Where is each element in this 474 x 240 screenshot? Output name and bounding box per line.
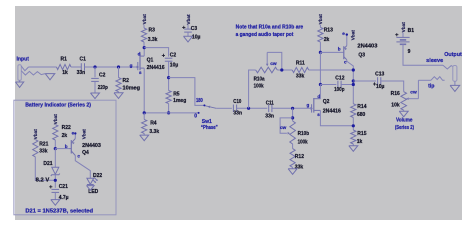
svg-text:R22: R22 [62,125,71,131]
node dot R5 bottom [167,111,170,114]
svg-text:Sw1: Sw1 [202,119,212,125]
svg-text:e: e [72,130,75,135]
wire Vbat to R13 [319,25,321,28]
resistor R12 [290,149,295,168]
ground below R12 [288,169,297,175]
label 33k R11 [296,74,305,80]
svg-text:R10b: R10b [298,131,310,137]
label D22 [93,173,102,179]
svg-text:33n: 33n [233,110,242,116]
label 2N4416 Q2 [323,108,341,114]
transistor Q4 2N4403 [69,139,75,156]
label R3 [149,28,156,34]
wire R5 to source row [168,104,170,113]
resistor R14 [351,104,356,118]
svg-text:4.7µ: 4.7µ [59,195,69,201]
label 2N4416 Q1 [147,65,165,71]
label R16 [391,91,400,97]
svg-text:sleeve: sleeve [426,58,443,64]
svg-text:g: g [307,103,310,108]
wire C2 tap [94,67,96,77]
resistor R5 [166,91,171,104]
node dot at R2 tap [117,65,120,68]
wire R3 to drain node [143,42,145,48]
label D21 [43,161,52,167]
label 2k R13 [324,37,330,43]
svg-text:a ganged audio taper pot: a ganged audio taper pot [236,32,294,38]
label LED [88,189,98,195]
label Input [17,57,30,63]
label sleeve [426,58,443,64]
label 4.7u [59,195,69,201]
svg-text:“Phase”: “Phase” [201,125,218,131]
svg-text:33n: 33n [77,70,86,76]
label 33n C11 [265,114,274,120]
label R1 [61,57,68,63]
svg-text:Battery Indicator (Series 2): Battery Indicator (Series 2) [25,103,91,109]
svg-text:e: e [342,31,345,36]
svg-text:680: 680 [357,112,366,118]
R10a wiper [266,52,269,66]
svg-text:1meg: 1meg [173,98,186,104]
wire Q3 collector [347,60,354,104]
svg-text:2k: 2k [62,133,68,139]
svg-text:Volume: Volume [396,117,412,123]
svg-text:cw: cw [410,90,417,95]
label Volume [396,117,412,123]
label Q1 [147,57,154,63]
resistor R22 [53,125,58,140]
svg-text:C2: C2 [99,72,106,78]
wire Q2 gate [310,107,312,109]
svg-text:2N4416: 2N4416 [147,65,165,71]
node dot out node C13 [352,79,355,82]
output jack sleeve contact [443,65,453,69]
wire C12 right [341,84,353,86]
wire R11 to out node [309,69,354,71]
svg-text:Output: Output [444,52,462,58]
svg-text:R3: R3 [149,28,156,34]
svg-text:R13: R13 [324,28,333,34]
svg-text:d: d [317,94,320,99]
svg-text:B1: B1 [408,28,415,34]
label C11 [266,100,274,106]
label 1k R15 [357,139,363,145]
wire Q4 collector to D22 [75,155,90,178]
ground below R16 [399,111,408,117]
svg-text:b: b [338,47,341,52]
potentiometer R10b [290,121,296,144]
svg-text:100k: 100k [254,83,264,89]
node dot Q4 emitter label [74,132,76,134]
svg-text:10µ: 10µ [192,35,201,41]
label Q3 [358,53,365,59]
R10b wiper tie [280,118,293,133]
ground below input jack plug [16,80,24,87]
svg-text:C1: C1 [80,57,87,63]
node dot C4-R5-switch [167,76,170,79]
net label Vbat at Q3 emitter [350,30,355,41]
label 100k R10b [298,139,308,145]
ground at input sleeve [45,74,55,80]
net label Vbat at Q4 emitter [81,129,86,140]
LED D22 [87,178,99,185]
resistor R21 [33,140,38,157]
pin label e Q4 [72,130,75,135]
svg-text:Q2: Q2 [323,99,330,105]
battery B1 [395,33,409,44]
label R21 [39,142,48,148]
wire Q4 emitter to Vbat [74,133,76,138]
label 33k R12 [295,164,304,170]
label 10u C3 [192,35,201,41]
label C10 [233,99,241,105]
svg-text:C13: C13 [375,71,384,77]
wire R10a right [277,69,292,71]
svg-text:C10: C10 [233,99,241,105]
switch contact 0 [198,112,200,114]
resistor R4 [142,119,147,133]
input jack tip contact [21,66,28,71]
svg-text:10µ: 10µ [376,84,385,90]
label R22 [62,125,71,131]
ground below C3 [184,36,193,42]
resistor R11 [292,67,309,72]
wire R14 to R15 [352,118,354,131]
note about ganged pot line 1 [236,25,304,31]
label R4 [150,120,157,126]
svg-text:R15: R15 [357,131,366,137]
svg-text:tip: tip [428,83,434,89]
capacitor C11 [269,105,272,113]
svg-text:R1: R1 [61,57,68,63]
label 1k [62,70,68,76]
wire C1 to Q1 gate [85,66,138,68]
resistor R2 [116,78,121,92]
svg-text:2N4416: 2N4416 [323,108,341,114]
label C1 [80,57,87,63]
svg-text:cw: cw [270,62,277,67]
wire base node to Q4 [55,148,69,150]
wire R2 to ground [118,92,120,93]
capacitor C10 [233,105,236,113]
wire R10b to R12 [292,144,294,149]
pin label s Q1 [139,70,142,75]
node dot at C2 tap [93,65,96,68]
pin label g Q1 [130,63,133,68]
wire C12 left [320,84,336,86]
capacitor C2 220p [91,78,99,81]
wire base R13 to Q3 [320,51,343,53]
wire C13 to R16 [381,81,404,92]
svg-text:33k: 33k [39,149,48,155]
R16 wiper [406,97,418,100]
label cw R10a [270,62,277,67]
switch Sw1 blade [205,105,216,108]
wire Q2 source drop [320,110,353,125]
label 10u C4 [170,63,179,69]
label R10a [254,76,265,82]
wire R10a drop [249,70,256,108]
label 1meg [173,98,186,104]
node dot R10b wiper tie [291,116,294,119]
wire R12 to ground [292,167,294,168]
label 33n C1 [77,70,86,76]
node dot out node R11 [352,68,355,71]
svg-text:C11: C11 [266,100,274,106]
label B1 [408,28,415,34]
wire out node to C13 [353,80,376,82]
wire switch pole to C10 [216,107,232,109]
svg-text:Q3: Q3 [358,53,365,59]
wire Vbat to battery [402,33,404,38]
net label Vbat above R13 [318,14,323,25]
svg-text:Vbat: Vbat [142,14,147,25]
wire C21 to ground [54,192,56,199]
svg-text:2k: 2k [324,37,330,43]
wire R16 to ground [403,110,405,111]
node dot R13 bottom [319,51,322,54]
pin label d Q2 [317,94,320,99]
label R12 [295,154,304,160]
wire C4 node to switch throw 180 [169,78,205,106]
label Sw1 [202,119,212,125]
R10b wiper arrow [288,132,290,135]
svg-text:c: c [77,153,80,158]
R10a wiper tie [267,52,282,70]
label 8.2 V [36,178,50,184]
label R5 [173,91,180,97]
svg-text:Vbat: Vbat [401,22,406,33]
label C4 [170,52,177,58]
label Q4 [82,150,89,156]
svg-text:b: b [65,144,68,149]
label 180 [196,98,203,104]
label R15 [357,131,366,137]
node dot R10a drop [247,107,250,110]
node dot R14 R15 [352,124,355,127]
label 10meg [123,86,141,92]
input jack J1 plug [18,65,21,81]
pin label s Q2 [317,112,320,117]
label R13 [324,28,333,34]
wire Q1 drain riser [143,48,145,57]
svg-text:3.3k: 3.3k [148,37,158,43]
pin label c Q4 [77,153,80,158]
label 2N4403 Q3 [357,44,377,50]
svg-text:8.2 V: 8.2 V [36,178,50,184]
resistor R13 [318,27,323,42]
pin label g Q2 [307,103,310,108]
label 33k R21 [39,149,48,155]
label R11 [296,61,305,67]
transistor Q3 2N4403 [344,46,347,60]
svg-text:9: 9 [408,49,411,55]
svg-text:Q4: Q4 [82,150,89,156]
wire drain node to C4 [144,48,168,57]
svg-text:C21: C21 [59,184,68,190]
svg-text:180: 180 [196,98,203,104]
node dot Q3 emitter label [346,33,348,35]
label C21 [59,184,68,190]
wire to Q2 drain riser [319,85,321,99]
ground below C21 [51,200,60,206]
label tip [428,83,434,89]
net label Vbat above C3 [186,14,191,25]
svg-text:10meg: 10meg [123,86,141,92]
label 2k R22 [62,133,68,139]
note about ganged pot line 2 [236,32,294,38]
wire C3 to ground [187,32,189,36]
wire Q1 source row to switch pole 0 [144,112,198,114]
svg-text:10µ: 10µ [170,63,179,69]
ground below output jack [450,81,460,91]
transistor Q2 2N4416 [310,98,320,113]
label 100p [334,87,344,93]
battery indicator comment box [14,100,116,215]
capacitor C1 [81,63,84,71]
wire battery to sleeve [403,44,443,65]
wire R1 to C1 [71,66,81,68]
wire down to R4 [143,113,145,120]
wire Vbat to C3 [187,25,189,29]
wire R10b tap [292,108,294,121]
net label Vbat above B1 [401,22,406,33]
label Battery Indicator (Series 2) [25,103,91,109]
svg-text:g: g [130,63,133,68]
capacitor C4 10u [162,54,173,61]
capacitor C3 10u [182,26,192,32]
label 680 [357,112,366,118]
transistor Q1 2N4416 [137,54,145,71]
resistor R1 [57,64,72,69]
label C13 [375,71,384,77]
label C2 [99,72,106,78]
label Output [444,52,462,58]
svg-text:C12: C12 [335,76,344,82]
wire base node down to C12 node [319,52,321,84]
svg-text:D21: D21 [43,161,52,167]
svg-text:220p: 220p [98,85,108,91]
svg-text:Q1: Q1 [147,57,154,63]
node dot battery indicator base [54,147,57,150]
svg-text:s: s [317,112,320,117]
svg-text:1k: 1k [357,139,363,145]
input jack sleeve contact [21,71,45,75]
wire C11 to Q2 gate [272,107,310,109]
R16 wiper riser [417,80,419,98]
svg-text:1k: 1k [62,70,68,76]
svg-text:3.3k: 3.3k [149,129,159,135]
pin label e Q3 [342,31,345,36]
wire R2 tap [118,67,120,78]
net label Vbat above R3 [142,14,147,25]
wire R13 to base node [319,42,321,52]
label Q2 [323,99,330,105]
wire R21 down and right [35,157,55,181]
node dot source row [143,111,146,114]
wire C10 to C11 [237,107,268,109]
pin label c Q3 [344,60,347,65]
ground below R2 [114,93,123,99]
svg-text:C2: C2 [170,52,177,58]
label 100k R10a [254,83,264,89]
wire R4 to ground [143,133,145,135]
svg-text:D21 = 1N5237B, selected: D21 = 1N5237B, selected [25,209,93,215]
wire Q1 source drop [143,68,145,113]
label C3 [191,26,198,32]
pin label b Q4 [65,144,68,149]
ground below R15 [349,146,358,152]
node dot C12 left [319,83,322,86]
svg-text:100k: 100k [298,139,308,145]
svg-text:100p: 100p [334,87,344,93]
label R14 [357,104,366,110]
svg-text:Input: Input [17,57,30,63]
label 9 [408,49,411,55]
label D21 note [25,209,93,215]
svg-text:C3: C3 [191,26,198,32]
svg-text:Vbat: Vbat [318,14,323,25]
svg-text:Vbat: Vbat [53,114,58,125]
pin label b Q3 [338,47,341,52]
capacitor C21 4.7u [49,185,59,192]
potentiometer R16 [401,92,407,111]
wire R15 to ground [352,144,354,146]
output jack tip contact [431,77,445,81]
resistor R3 [141,28,146,42]
label R2 [123,78,130,84]
svg-text:R14: R14 [357,104,366,110]
label 220p [98,85,108,91]
svg-text:d: d [138,51,141,56]
ground below R4 [140,135,149,141]
zener diode D21 [51,167,60,176]
svg-text:Vbat: Vbat [81,129,86,140]
svg-text:Vbat: Vbat [350,30,355,41]
svg-text:R11: R11 [296,61,305,67]
svg-text:Note that R10a and R10b are: Note that R10a and R10b are [236,25,304,31]
label 3.3k R3 [148,37,158,43]
label 33n C10 [233,110,242,116]
svg-text:s: s [139,70,142,75]
wire C4 down to R5 node [168,61,170,90]
label 0 [194,114,197,120]
svg-text:Vbat: Vbat [186,14,191,25]
resistor R15 [351,130,356,144]
switch contact 180 [203,104,205,106]
svg-text:Vbat: Vbat [33,129,38,140]
svg-text:10k: 10k [391,102,400,108]
potentiometer R10a [256,67,278,73]
node dot Q1 drain [143,46,146,49]
svg-text:33n: 33n [265,114,274,120]
svg-text:0: 0 [194,114,197,120]
wire input to R1 [29,66,57,68]
wire base node to D21 [54,149,56,168]
svg-text:R5: R5 [173,91,180,97]
node dot R10a wiper tie [280,68,283,71]
svg-text:R16: R16 [391,91,400,97]
svg-text:(Series 2): (Series 2) [395,125,414,131]
ground below C2 [91,93,100,99]
net label Vbat above R22 [53,114,58,125]
svg-text:33k: 33k [296,74,305,80]
label 10k R16 [391,102,400,108]
label 10u C13 [376,84,385,90]
label 2N4403 Q4 [82,143,101,149]
node dot D21 R21 C21 [54,179,57,182]
